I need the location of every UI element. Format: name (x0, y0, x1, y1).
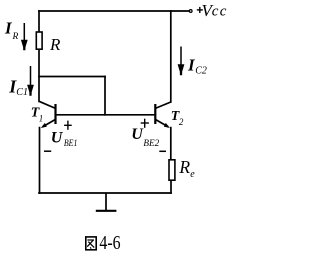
svg-text:U: U (131, 126, 144, 143)
current arrow I_C1 (27, 66, 34, 96)
svg-text:R: R (49, 35, 61, 54)
wire top rail (39, 10, 189, 12)
label R (49, 35, 61, 54)
label Re (178, 157, 195, 180)
svg-text:BE1: BE1 (64, 139, 78, 149)
label U_BE1 (51, 130, 78, 150)
svg-text:4-6: 4-6 (99, 233, 120, 254)
svg-text:R: R (12, 32, 19, 42)
current arrow I_R (21, 23, 28, 50)
transistor T2 (155, 102, 171, 128)
svg-text:U: U (51, 130, 64, 147)
plus sign Vcc (197, 7, 203, 13)
svg-text:e: e (190, 169, 195, 180)
label T2 (171, 109, 184, 127)
label I_C2 (187, 55, 207, 76)
label T1 (31, 106, 44, 124)
resistor Re (169, 160, 175, 180)
svg-text:cc: cc (212, 4, 228, 20)
wire collector-base tie horizontal (39, 76, 105, 78)
svg-text:2: 2 (179, 117, 184, 127)
svg-text:R: R (178, 157, 190, 177)
wire left branch below R (38, 50, 40, 101)
label I_C1 (8, 77, 28, 98)
svg-text:1: 1 (39, 114, 44, 124)
wire base bus T1-T2 (56, 114, 156, 116)
svg-text:C2: C2 (195, 65, 207, 76)
minus sign UBE2 (159, 150, 166, 152)
label I_R (4, 18, 19, 42)
wire bottom rail (39, 192, 171, 194)
caption figure 4-6 (86, 233, 121, 254)
transistor T1 (39, 101, 56, 128)
label U_BE2 (131, 126, 159, 149)
svg-text:BE2: BE2 (143, 139, 159, 149)
plus sign UBE2 (141, 119, 149, 128)
wire right emitter to Re (170, 128, 172, 159)
wire collector-base tie vertical (104, 77, 106, 115)
minus sign UBE1 (44, 150, 51, 152)
Vcc terminal (189, 10, 192, 13)
ground (96, 193, 117, 211)
plus sign UBE1 (64, 121, 72, 130)
wire left branch upper (38, 11, 40, 31)
label +Vcc (202, 1, 228, 20)
current arrow I_C2 (178, 47, 185, 76)
svg-text:C1: C1 (16, 87, 28, 98)
wire Re to bottom rail (170, 181, 172, 193)
wire left emitter branch (39, 128, 41, 193)
resistor R (36, 32, 42, 49)
wire right branch upper (170, 11, 172, 102)
